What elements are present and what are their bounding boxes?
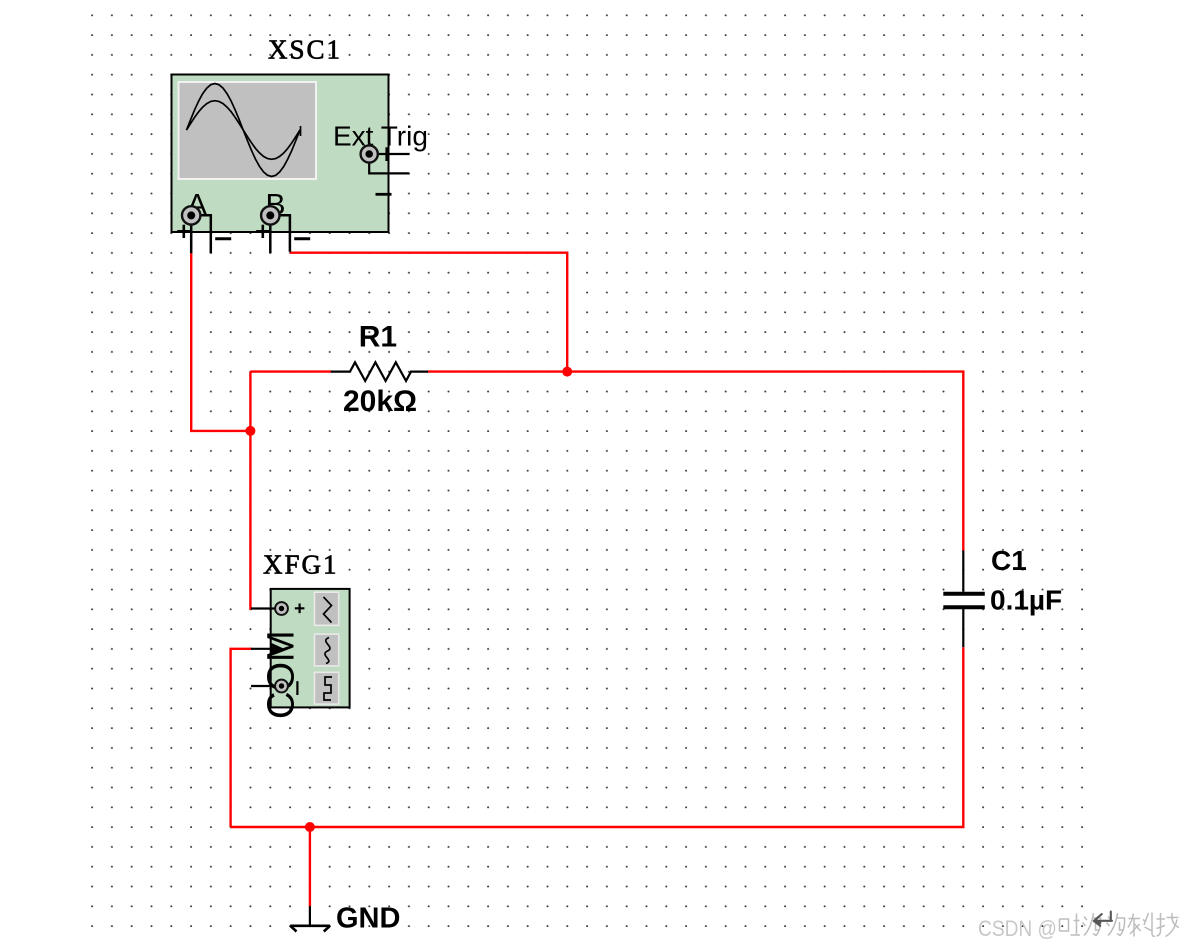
svg-text:Ext Trig: Ext Trig bbox=[333, 121, 428, 152]
Ext Trig terminal pin bbox=[361, 145, 410, 194]
ground bbox=[290, 906, 330, 931]
svg-text:GND: GND bbox=[336, 902, 400, 934]
cursor arrow bbox=[1094, 912, 1112, 926]
channel B terminal and pins bbox=[256, 206, 310, 253]
svg-text:R1: R1 bbox=[359, 321, 397, 354]
XFG1 minus terminal bbox=[251, 680, 297, 695]
wire net A: scope A+ to junction bbox=[191, 253, 250, 431]
watermark CSDN bbox=[978, 912, 1179, 942]
wire C1 bottom to bottom rail bbox=[231, 647, 964, 827]
svg-text:C1: C1 bbox=[991, 545, 1027, 576]
XFG1 plus terminal bbox=[251, 602, 304, 615]
capacitor C1 bbox=[943, 551, 985, 648]
svg-text:0.1µF: 0.1µF bbox=[990, 585, 1062, 616]
wire ground stem bbox=[309, 827, 311, 906]
svg-text:XSC1: XSC1 bbox=[268, 35, 342, 65]
svg-text:CSDN @: CSDN @ bbox=[978, 916, 1057, 941]
wire R1 left lead to vertical bbox=[250, 370, 331, 372]
oscilloscope XSC1 body bbox=[172, 75, 389, 233]
svg-text:COM: COM bbox=[261, 630, 303, 719]
svg-text:XFG1: XFG1 bbox=[263, 550, 339, 580]
resistor R1 bbox=[331, 362, 428, 381]
wire net: junction down to XFG1 plus and up to R1 bbox=[250, 372, 252, 609]
function generator XFG1 body bbox=[271, 589, 350, 708]
svg-text:20kΩ: 20kΩ bbox=[343, 385, 417, 418]
wire bottom rail up to XFG1 COM bbox=[231, 649, 252, 827]
XFG1 COM pin arrow bbox=[251, 643, 284, 655]
wire net B: scope B- terminal across and down to R1 output bbox=[290, 253, 567, 372]
junction node B-R1-C1 bbox=[562, 367, 572, 377]
junction node ground rail bbox=[305, 822, 315, 832]
channel A terminal and pins bbox=[177, 206, 231, 253]
junction node R1-A-XFG1 bbox=[245, 426, 255, 436]
wire R1 right to C1 top bbox=[428, 372, 964, 551]
